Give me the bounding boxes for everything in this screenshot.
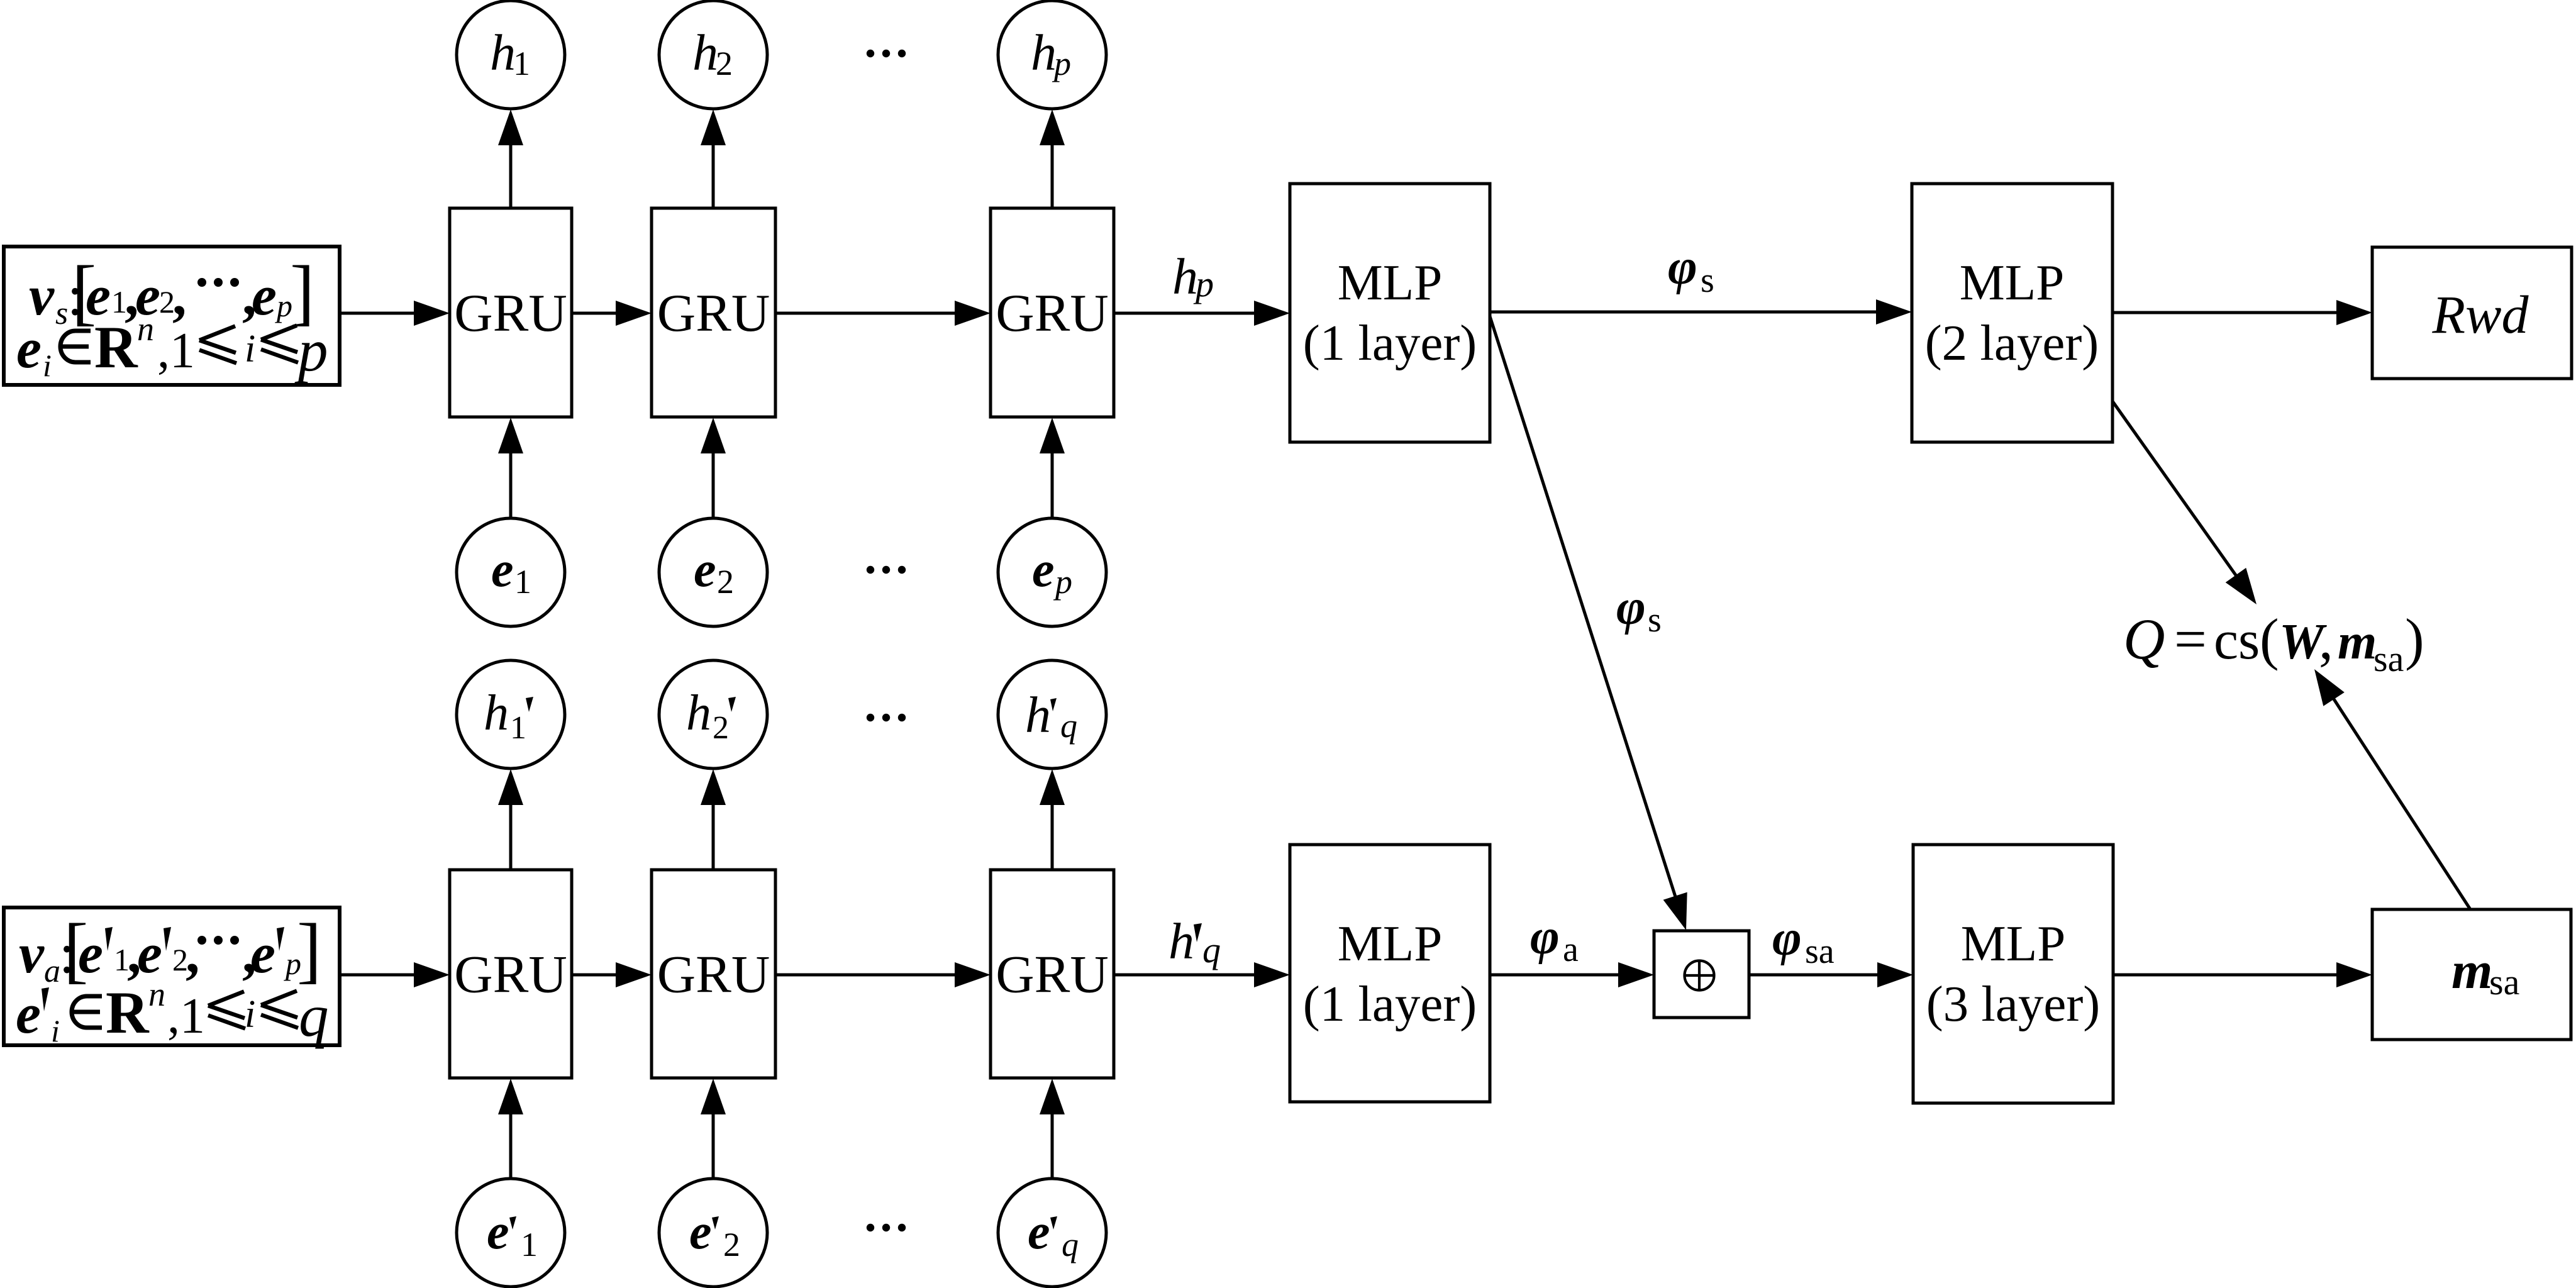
svg-text:sa: sa xyxy=(1805,932,1835,971)
svg-text:]: ] xyxy=(297,908,321,991)
svg-text:i: i xyxy=(245,328,255,370)
svg-text:,1: ,1 xyxy=(167,989,205,1044)
svg-text:GRU: GRU xyxy=(454,945,567,1004)
svg-text:,: , xyxy=(186,923,200,985)
svg-text:R: R xyxy=(106,979,150,1046)
svg-text:e: e xyxy=(1032,542,1055,597)
svg-text:1: 1 xyxy=(513,45,530,82)
svg-text:2: 2 xyxy=(717,563,734,601)
svg-text:v: v xyxy=(19,923,45,985)
svg-text:q: q xyxy=(1060,707,1077,745)
svg-text:MLP: MLP xyxy=(1961,915,2066,972)
svg-text:1: 1 xyxy=(521,1226,538,1263)
svg-text:h: h xyxy=(1025,686,1051,743)
svg-text:(1 layer): (1 layer) xyxy=(1303,314,1477,371)
svg-text:GRU: GRU xyxy=(454,284,567,343)
svg-text:2: 2 xyxy=(723,1226,740,1263)
svg-text:MLP: MLP xyxy=(1960,254,2065,311)
svg-text:p: p xyxy=(1053,563,1072,601)
svg-text:q: q xyxy=(299,982,329,1049)
svg-text:Q: Q xyxy=(2123,607,2165,671)
svg-text:,: , xyxy=(2319,607,2333,671)
svg-text:GRU: GRU xyxy=(996,284,1108,343)
svg-text:e: e xyxy=(78,923,103,985)
svg-text:a: a xyxy=(1563,930,1579,969)
svg-text:e: e xyxy=(1028,1204,1050,1260)
svg-text:MLP: MLP xyxy=(1338,254,1443,311)
svg-text:φ: φ xyxy=(1772,911,1802,966)
svg-text:): ) xyxy=(2405,607,2424,671)
svg-text:p: p xyxy=(294,317,328,384)
svg-text:=: = xyxy=(2174,607,2207,671)
svg-text:i: i xyxy=(43,348,52,383)
svg-text:e: e xyxy=(689,1204,712,1260)
svg-text:2: 2 xyxy=(713,710,729,746)
svg-text:Rwd: Rwd xyxy=(2432,284,2529,345)
svg-text:a: a xyxy=(44,953,60,989)
svg-text:s: s xyxy=(1701,261,1714,300)
svg-text:p: p xyxy=(1193,264,1214,304)
svg-text:s: s xyxy=(1648,601,1662,640)
svg-text:2: 2 xyxy=(716,45,733,82)
svg-text:h: h xyxy=(1031,24,1057,81)
svg-text:GRU: GRU xyxy=(996,945,1108,1004)
svg-text:i: i xyxy=(51,1013,60,1048)
svg-text:s: s xyxy=(2238,610,2260,671)
svg-text:,: , xyxy=(172,265,187,327)
svg-text:MLP: MLP xyxy=(1338,915,1443,972)
svg-text:n: n xyxy=(148,975,165,1013)
svg-text:,1: ,1 xyxy=(157,323,195,379)
svg-text:s: s xyxy=(55,296,68,331)
svg-text:h: h xyxy=(692,24,718,81)
svg-text:h: h xyxy=(490,24,516,81)
svg-text:p: p xyxy=(1052,45,1071,82)
svg-text:h: h xyxy=(1169,913,1194,970)
svg-text:(2 layer): (2 layer) xyxy=(1925,314,2099,371)
svg-text:1: 1 xyxy=(510,710,526,746)
svg-text:1: 1 xyxy=(514,563,531,601)
svg-text:e: e xyxy=(252,265,277,327)
svg-text:h: h xyxy=(484,686,509,741)
svg-text:n: n xyxy=(137,310,154,348)
svg-text:e: e xyxy=(491,542,514,597)
svg-text:e: e xyxy=(16,318,42,380)
svg-text:sa: sa xyxy=(2489,962,2519,1002)
svg-text:h: h xyxy=(1172,248,1198,305)
svg-text:(: ( xyxy=(2260,607,2279,671)
svg-text:e: e xyxy=(487,1204,509,1260)
svg-text:e: e xyxy=(250,923,275,985)
svg-text:φ: φ xyxy=(1530,909,1560,965)
svg-text:GRU: GRU xyxy=(657,284,770,343)
svg-text:φ: φ xyxy=(1668,240,1697,295)
svg-text:φ: φ xyxy=(1616,580,1646,635)
svg-text:e: e xyxy=(694,542,716,597)
svg-text:q: q xyxy=(1062,1226,1079,1263)
svg-text:(1 layer): (1 layer) xyxy=(1303,975,1477,1032)
svg-text:e: e xyxy=(16,983,41,1045)
svg-text:sa: sa xyxy=(2373,638,2404,679)
svg-text:(3 layer): (3 layer) xyxy=(1926,975,2101,1032)
svg-text:m: m xyxy=(2338,614,2377,670)
svg-text:R: R xyxy=(94,314,138,380)
svg-text:c: c xyxy=(2214,610,2238,671)
svg-text:i: i xyxy=(245,993,255,1036)
svg-text:m: m xyxy=(2451,941,2492,1000)
svg-text:GRU: GRU xyxy=(657,945,770,1004)
svg-text:h: h xyxy=(686,686,711,741)
svg-text:q: q xyxy=(1202,930,1221,970)
